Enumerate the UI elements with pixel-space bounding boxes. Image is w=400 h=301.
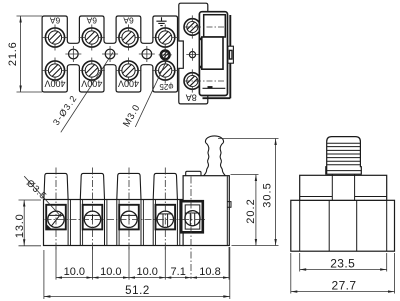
fuse screw top (8A terminal) (184, 15, 201, 38)
vertical centerlines modules (56, 168, 165, 252)
neck below cap (332, 174, 354, 175)
horizontal centerline through screws (45, 219, 206, 221)
svg-text:27.7: 27.7 (332, 279, 357, 293)
leader M3.0 (121, 59, 167, 129)
centerline fuse screw top (184, 26, 225, 28)
svg-text:6A: 6A (49, 15, 60, 25)
dimension 23.5 (upper block width) (300, 253, 387, 272)
fuse module wire tower top (186, 171, 201, 175)
fuse housing body (top view) (199, 12, 230, 99)
svg-text:400V: 400V (44, 79, 65, 89)
screw module1 top (42, 25, 68, 51)
svg-text:φ25: φ25 (159, 82, 174, 91)
svg-text:20.2: 20.2 (245, 198, 257, 223)
svg-text:6A: 6A (86, 15, 97, 25)
svg-text:400V: 400V (81, 79, 102, 89)
strip body (front view) (44, 200, 184, 246)
tapped hole M3.0 (module 4) (159, 48, 172, 61)
screw module4 top (152, 25, 178, 51)
mounting hole C (between module 3 and 4) (139, 46, 155, 62)
svg-text:21.6: 21.6 (7, 41, 19, 66)
svg-text:51.2: 51.2 (125, 285, 150, 297)
screw frame fuse terminal (heavy) (181, 201, 203, 232)
centerline fuse screw bottom (184, 80, 225, 82)
vertical centerline fuse screw (190, 177, 192, 280)
broken-away fuse cap (wavy break lines) (204, 136, 226, 176)
screw module3 bottom (116, 58, 142, 84)
svg-text:6A: 6A (123, 15, 134, 25)
screw frame module4 (156, 205, 176, 230)
svg-text:10.0: 10.0 (100, 266, 121, 278)
svg-text:8A: 8A (186, 92, 197, 102)
screw module2 bottom (79, 58, 105, 84)
svg-text:23.5: 23.5 (330, 257, 355, 271)
mounting hole A (between module 1 and 2) (65, 46, 81, 62)
screw frame module3 (119, 205, 139, 230)
tower module3 (117, 173, 141, 199)
screw module3 top (116, 25, 142, 51)
fuse housing side tab (228, 46, 234, 63)
leader 3-Ø3.2 (51, 52, 113, 132)
dimension 51.2 (overall length) (44, 247, 230, 299)
svg-text:30.5: 30.5 (261, 182, 273, 207)
svg-text:400V: 400V (118, 79, 139, 89)
fuse module front body (183, 176, 231, 246)
dimension 27.7 (base width) (291, 253, 395, 294)
tower module2 (80, 173, 104, 199)
threaded cap (side view) (326, 137, 362, 175)
screw module2 top (79, 25, 105, 51)
dimension 21.6 (top view overall height) (7, 16, 42, 92)
svg-text:10.0: 10.0 (136, 266, 157, 278)
pitch dimension line 10.0/10.0/10.0/7.1/10.8 (56, 247, 229, 280)
screw module1 bottom (42, 58, 68, 84)
leader Ø3.5 (front screw hole) (24, 176, 61, 216)
svg-text:10.8: 10.8 (199, 266, 220, 278)
side view base block (291, 200, 395, 251)
tower module4 (153, 173, 177, 199)
tower module1 (44, 173, 68, 199)
fuse holder mounting plate (top view) (179, 3, 208, 104)
svg-text:13.0: 13.0 (14, 213, 26, 238)
svg-text:7.1: 7.1 (171, 266, 186, 278)
body groove lines (68, 200, 177, 246)
latch step on right edge (227, 202, 231, 208)
dimension 20.2 (fuse module height) (231, 175, 279, 246)
side view upper block (300, 175, 387, 200)
ground symbol (module 4) (156, 17, 166, 25)
mounting hole B (between module 2 and 3) (102, 46, 118, 62)
svg-text:10.0: 10.0 (64, 266, 85, 278)
dimension 30.5 (overall height with cap) (218, 139, 279, 246)
screw frame module1 (46, 205, 66, 230)
fuse plate center hole (186, 48, 198, 60)
terminal strip outline (top view) (42, 16, 177, 92)
screw module4 bottom (152, 58, 178, 84)
dimension 13.0 (strip height) (14, 200, 41, 246)
screw frame module2 (83, 205, 103, 230)
fuse screw bottom (8A terminal) (184, 69, 201, 92)
